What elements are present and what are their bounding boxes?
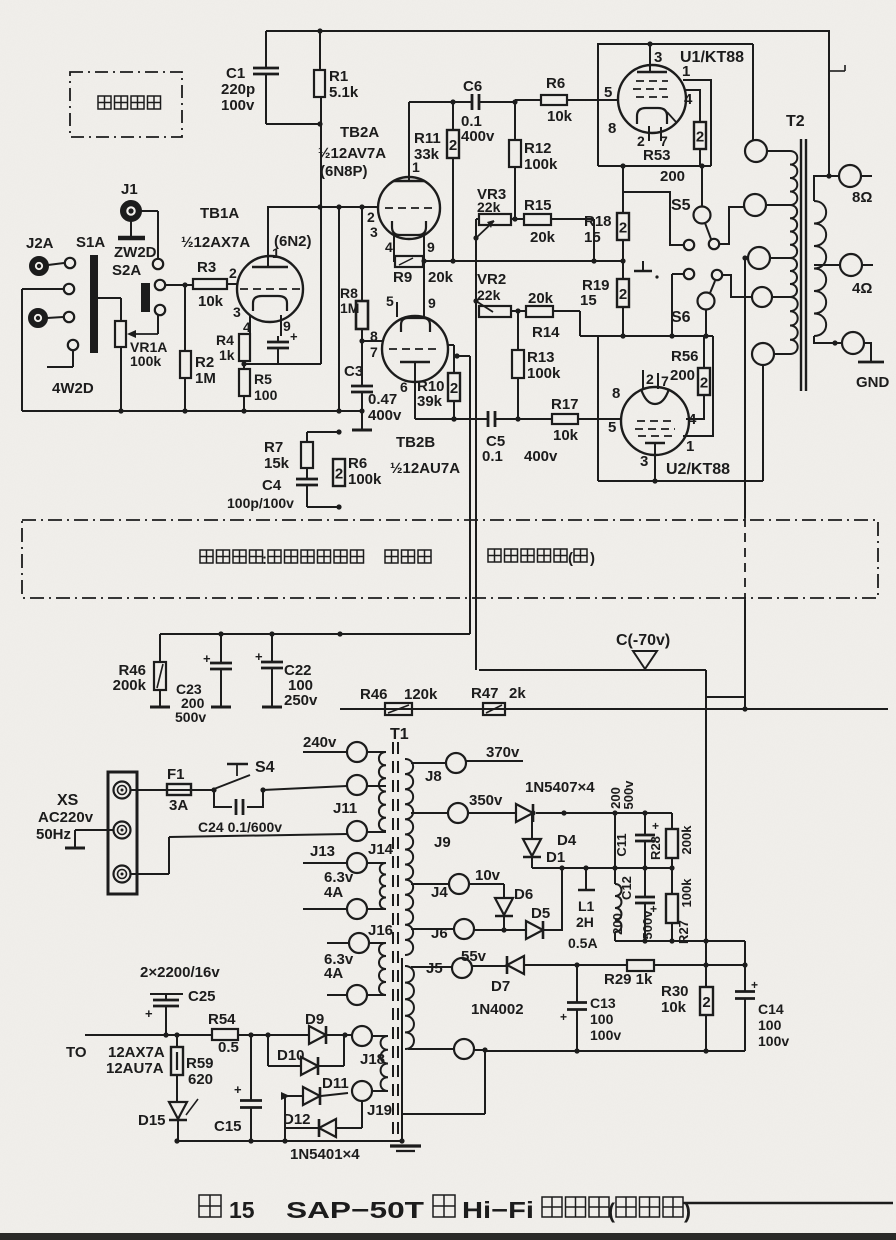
svg-text:2: 2 (700, 375, 708, 392)
terminal GND (842, 332, 864, 354)
terminal J6 (454, 919, 474, 939)
resistor R28 (671, 813, 673, 829)
TB1A cathode (253, 296, 287, 311)
wire bias node (479, 669, 706, 671)
terminal J16b (347, 985, 367, 1005)
T1 winding 6.3v B (379, 943, 386, 995)
terminal J14b (347, 899, 367, 919)
svg-text:(: ( (568, 550, 573, 567)
svg-text:400v: 400v (524, 448, 558, 465)
U1 cell box (598, 44, 753, 166)
wire S1A wiper to VR1A (97, 297, 121, 299)
diode D11 (285, 1095, 303, 1097)
svg-text:1k: 1k (219, 347, 235, 363)
wire bias bottom rail (485, 1050, 745, 1052)
terminal J16a (349, 933, 369, 953)
svg-text:D12: D12 (283, 1111, 311, 1128)
svg-text:39k: 39k (417, 393, 443, 410)
resistor R53 (684, 90, 700, 122)
capacitor C4 (306, 468, 308, 479)
T1 primary winding (379, 752, 386, 831)
svg-text:D1: D1 (546, 849, 565, 866)
wire 8 ohm tap (814, 176, 829, 201)
svg-text:2k: 2k (509, 685, 526, 702)
svg-text:9: 9 (427, 239, 435, 255)
svg-text:D11: D11 (322, 1075, 349, 1092)
wire S4 to T1 (263, 786, 347, 790)
svg-text:0.1: 0.1 (482, 448, 503, 465)
capacitor C1 (265, 31, 267, 67)
wire B+ center tap down (744, 258, 746, 518)
wire bias rail (340, 708, 888, 710)
terminal J11 live (347, 775, 367, 795)
ground below C3 (361, 411, 363, 430)
T2 primary terminal P5 (752, 343, 774, 365)
svg-text:F1: F1 (167, 766, 185, 783)
U2 plate pin 3 (645, 442, 665, 445)
svg-text:100v: 100v (758, 1033, 789, 1049)
TB1A grid dash (240, 288, 300, 290)
svg-text:100: 100 (590, 1011, 614, 1027)
resistor R12 (514, 102, 516, 140)
diode D10 (267, 1035, 269, 1066)
svg-text:1N5401×4: 1N5401×4 (290, 1146, 360, 1163)
resistor R19 (622, 261, 624, 279)
svg-text:R29 1k: R29 1k (604, 971, 653, 988)
svg-text:T1: T1 (390, 726, 409, 743)
svg-text:J8: J8 (425, 768, 442, 785)
svg-text:AC220v: AC220v (38, 809, 94, 826)
wire TB1A cathode pins (249, 315, 251, 334)
svg-text:C11: C11 (614, 833, 629, 856)
potentiometer VR2 (473, 298, 478, 303)
svg-text:20k: 20k (528, 290, 554, 307)
resistor R11 (452, 102, 454, 130)
svg-text:1: 1 (682, 63, 690, 80)
potentiometer R46 200k (159, 634, 161, 662)
bias arrow marker (633, 651, 657, 669)
tube TB1A (237, 256, 303, 322)
wire filter bottom (615, 940, 745, 942)
svg-text:R9: R9 (393, 269, 412, 286)
svg-text:3: 3 (640, 453, 648, 470)
svg-text:100k: 100k (527, 365, 561, 382)
TB2A plate pin 1 (408, 102, 410, 181)
resistor R56 (686, 395, 704, 419)
svg-text:R3: R3 (197, 259, 216, 276)
svg-text:+: + (560, 1010, 567, 1024)
svg-text:350v: 350v (469, 792, 503, 809)
svg-text:620: 620 (188, 1071, 213, 1088)
svg-text:R12: R12 (524, 140, 552, 157)
svg-text:4: 4 (385, 239, 393, 255)
resistor R30 (705, 965, 707, 987)
svg-text:4W2D: 4W2D (52, 380, 94, 397)
svg-text:½12AU7A: ½12AU7A (390, 460, 460, 477)
terminal 8 ohm (839, 165, 861, 187)
resistor R59 (176, 1035, 178, 1047)
svg-text:J2A: J2A (26, 235, 54, 252)
terminal J19 (352, 1081, 372, 1101)
resistor R2 (184, 285, 186, 351)
diode D1 (530, 810, 535, 815)
T2 primary terminal P1 (745, 140, 767, 162)
svg-text:R8: R8 (340, 285, 358, 301)
channel 1 label box (70, 72, 182, 137)
resistor R14 (511, 310, 526, 312)
svg-text:R11: R11 (414, 130, 441, 147)
svg-text:C15: C15 (214, 1118, 242, 1135)
U2 cathode top (641, 389, 669, 404)
svg-text:3: 3 (370, 224, 378, 240)
svg-text:8: 8 (608, 120, 616, 137)
svg-text:): ) (590, 550, 595, 567)
capacitor C15 (250, 1035, 252, 1100)
capacitor C3 (361, 341, 363, 386)
svg-text:R30: R30 (661, 983, 689, 1000)
svg-text:C3: C3 (344, 363, 363, 380)
caption rule (683, 1202, 893, 1204)
diode D5 (474, 929, 526, 931)
wire XS middle to ground (75, 829, 113, 831)
svg-text:0.5: 0.5 (218, 1039, 239, 1056)
svg-text:1N5407×4: 1N5407×4 (525, 779, 595, 796)
svg-text:200: 200 (660, 168, 685, 185)
svg-text:2: 2 (450, 380, 458, 397)
svg-text:D4: D4 (557, 832, 577, 849)
capacitor C14 (744, 965, 746, 991)
svg-text:J14: J14 (368, 841, 394, 858)
svg-text:XS: XS (57, 792, 79, 809)
svg-text:R4: R4 (216, 332, 234, 348)
wire GND tap (814, 336, 842, 343)
svg-text:6: 6 (400, 379, 408, 395)
svg-text:+: + (290, 329, 298, 344)
svg-text:D6: D6 (514, 886, 533, 903)
U2 cell box (597, 336, 599, 481)
bottom page bar (0, 1233, 896, 1240)
TB2B pins 5 9 (396, 302, 398, 317)
svg-text:R53: R53 (643, 147, 671, 164)
jack J2A lower (29, 309, 47, 327)
terminal J5 (452, 958, 472, 978)
wire left ground branch (22, 288, 64, 290)
svg-text:VR2: VR2 (477, 271, 506, 288)
svg-text:1: 1 (272, 245, 280, 261)
terminal J8 (446, 753, 466, 773)
svg-text:400v: 400v (461, 128, 495, 145)
wire R15 to bias line (593, 219, 595, 261)
svg-text:2: 2 (702, 994, 710, 1011)
wire bias winding return (474, 1049, 485, 1051)
svg-text:S4: S4 (255, 759, 275, 776)
svg-text:C6: C6 (463, 78, 482, 95)
T2 primary terminal P3 (748, 247, 770, 269)
svg-text:20k: 20k (428, 269, 454, 286)
wire TB2A plate to C6 (409, 101, 453, 103)
T2 primary terminal P2 (744, 194, 766, 216)
wire 10v (469, 883, 504, 885)
svg-text:+: + (145, 1006, 153, 1021)
svg-text:4: 4 (684, 91, 693, 108)
wire TB1A plate to TB2A grid (267, 206, 379, 208)
U2 pin1 wire (683, 336, 713, 436)
svg-text:R54: R54 (208, 1011, 236, 1028)
wire TB2B grid node (362, 340, 382, 342)
resistor R6 10k (515, 99, 541, 101)
wire VR3 node (476, 218, 479, 220)
svg-text:2: 2 (619, 286, 627, 303)
svg-text:R15: R15 (524, 197, 552, 214)
svg-text:100v: 100v (221, 97, 255, 114)
svg-text:R5: R5 (254, 371, 272, 387)
svg-text:GND: GND (856, 374, 890, 391)
diode D15 (169, 1102, 187, 1119)
resistor R17 (552, 414, 578, 424)
svg-text:22k: 22k (477, 199, 501, 215)
svg-text:C25: C25 (188, 988, 216, 1005)
svg-text:TO: TO (66, 1044, 87, 1061)
T2 secondary winding (814, 201, 826, 336)
svg-text:1N4002: 1N4002 (471, 1001, 524, 1018)
svg-text:5: 5 (608, 419, 616, 436)
potentiometer R9 (395, 256, 423, 267)
svg-text:R1: R1 (329, 68, 348, 85)
U2 plate to T2 P5 (762, 365, 764, 481)
svg-text:10v: 10v (475, 867, 501, 884)
resistor R10 (448, 344, 454, 346)
svg-text:SAP−50T: SAP−50T (286, 1197, 424, 1223)
capacitor C22 (271, 634, 273, 661)
T2 primary winding (790, 151, 797, 205)
svg-text:100: 100 (758, 1017, 782, 1033)
wire TB2B cathode feed down (469, 356, 471, 634)
svg-text:3: 3 (233, 304, 241, 320)
U1 pin1 wire (683, 80, 711, 166)
svg-text:200: 200 (610, 913, 625, 935)
wire 55v (472, 965, 507, 967)
U1 plate to T2 P1 (752, 44, 754, 141)
svg-text:10k: 10k (553, 427, 579, 444)
stray mark top right (830, 70, 845, 72)
svg-text:100p/100v: 100p/100v (227, 495, 294, 511)
svg-text:220p: 220p (221, 81, 255, 98)
tube TB2A (378, 177, 440, 239)
svg-text:R6: R6 (348, 455, 367, 472)
resistor R1 (319, 31, 321, 70)
tube U1 (618, 65, 686, 133)
svg-text:100v: 100v (590, 1027, 621, 1043)
svg-text:500v: 500v (640, 910, 655, 940)
svg-text:2H: 2H (576, 914, 594, 930)
resistor R3 (193, 279, 227, 289)
capacitor C25 (150, 993, 183, 995)
T2 core (800, 139, 802, 391)
T1 winding heater rect (381, 1036, 388, 1091)
svg-text:J5: J5 (426, 960, 443, 977)
svg-text:+: + (234, 1082, 242, 1097)
svg-text:T2: T2 (786, 113, 805, 130)
terminal J4 (449, 874, 469, 894)
diode D9 (309, 1026, 326, 1044)
svg-text:C13: C13 (590, 995, 616, 1011)
svg-text:C(-70v): C(-70v) (616, 632, 670, 649)
terminal J18 (352, 1026, 372, 1046)
wire XS bottom to T1 (131, 873, 169, 875)
svg-text:(6N8P): (6N8P) (320, 163, 368, 180)
svg-text:15k: 15k (264, 455, 290, 472)
svg-text:7: 7 (370, 344, 378, 360)
wire heater feed (85, 1034, 212, 1036)
T1 winding 6.3v A (380, 863, 386, 909)
wire bias line y=261 (423, 260, 623, 262)
svg-text:J6: J6 (431, 925, 448, 942)
capacitor C6 (453, 101, 471, 103)
terminal 4 ohm (840, 254, 862, 276)
svg-text:C12: C12 (619, 876, 634, 900)
diode D6 (503, 884, 505, 898)
capacitor C13 (576, 965, 578, 1002)
TB2B cathode top (401, 318, 430, 332)
svg-text:400v: 400v (368, 407, 402, 424)
wire bias feed to divider (705, 670, 707, 965)
svg-text:12AU7A: 12AU7A (106, 1060, 164, 1077)
chassis ground (390, 1144, 421, 1147)
terminal J9 (448, 803, 468, 823)
channel 2 placeholder band (22, 520, 878, 598)
svg-text:22k: 22k (477, 287, 501, 303)
svg-text:3A: 3A (169, 797, 188, 814)
svg-text:J4: J4 (431, 884, 448, 901)
capacitor C11 (644, 813, 646, 834)
switch S2A (153, 259, 163, 269)
resistor R7 (306, 432, 308, 442)
wire 370v tap (466, 760, 523, 762)
svg-text:+: + (652, 819, 659, 833)
svg-text:100k: 100k (130, 353, 161, 369)
svg-text:S6: S6 (671, 309, 691, 326)
TB1A plate pin 1 (267, 207, 269, 267)
fuse F1 (130, 789, 167, 791)
wire S1A spare throw (72, 350, 74, 367)
wire R6/C4 branch (338, 207, 340, 411)
svg-text:(: ( (608, 1200, 615, 1223)
capacitor C12 (644, 868, 646, 896)
svg-text:R46: R46 (360, 686, 388, 703)
svg-text:8: 8 (612, 385, 620, 402)
resistor R15 (511, 218, 524, 220)
figure caption (199, 1195, 221, 1217)
svg-text:100: 100 (254, 387, 278, 403)
svg-text:1: 1 (686, 438, 694, 455)
svg-text:R47: R47 (471, 685, 499, 702)
wire bias feed down (475, 238, 477, 670)
U1 cathode (637, 108, 667, 124)
diode D12 (285, 1127, 319, 1129)
svg-text:R2: R2 (195, 354, 214, 371)
svg-text:S2A: S2A (112, 262, 141, 279)
svg-text:5: 5 (604, 84, 612, 101)
svg-text:0.47: 0.47 (368, 391, 397, 408)
wire TB2A cathode pins (393, 235, 395, 261)
wire 4 ohm tap (814, 264, 840, 266)
resistor R8 (361, 207, 363, 301)
svg-text:8Ω: 8Ω (852, 189, 872, 206)
choke L1 (585, 868, 587, 890)
svg-text:D10: D10 (277, 1047, 305, 1064)
svg-text:370v: 370v (486, 744, 520, 761)
resistor R13 (517, 311, 519, 350)
svg-text:20k: 20k (530, 229, 556, 246)
svg-text:100k: 100k (524, 156, 558, 173)
terminal J11 neutral (347, 821, 367, 841)
svg-text:R6: R6 (546, 75, 565, 92)
svg-text:2×2200/16v: 2×2200/16v (140, 964, 220, 981)
svg-text:D15: D15 (138, 1112, 166, 1129)
U2 pin stubs 2 7 (642, 370, 644, 389)
svg-text:500v: 500v (175, 709, 206, 725)
U1 grid dashes (636, 80, 668, 82)
svg-text:10k: 10k (547, 108, 573, 125)
svg-text:15: 15 (229, 1197, 255, 1223)
ground bar below J1 (130, 221, 132, 236)
svg-text:2: 2 (229, 265, 237, 281)
resistor R27 (671, 868, 673, 894)
wire bottom ground rail (177, 1140, 402, 1142)
switch S4 (211, 787, 216, 792)
svg-text:2: 2 (367, 209, 375, 225)
svg-text:R17: R17 (551, 396, 579, 413)
svg-text:1M: 1M (195, 370, 216, 387)
svg-text:J13: J13 (310, 843, 335, 860)
svg-text:+: + (255, 649, 263, 664)
svg-text:C24 0.1/600v: C24 0.1/600v (198, 819, 282, 835)
svg-text:J18: J18 (360, 1051, 385, 1068)
svg-text:TB2A: TB2A (340, 124, 379, 141)
svg-text::: : (262, 551, 267, 568)
wire preamp supply rail (160, 633, 470, 635)
capacitor TB1A cathode bypass (267, 341, 289, 344)
svg-text:120k: 120k (404, 686, 438, 703)
tube TB2B (382, 316, 448, 382)
svg-text:C4: C4 (262, 477, 282, 494)
svg-text:J11: J11 (333, 800, 357, 817)
resistor R18 (620, 163, 625, 168)
svg-text:R13: R13 (527, 349, 555, 366)
svg-text:½12AX7A: ½12AX7A (181, 234, 250, 251)
svg-text:D5: D5 (531, 905, 550, 922)
wire R14 to U2 grid box (553, 310, 580, 312)
capacitor C5 (487, 411, 490, 427)
svg-text:50Hz: 50Hz (36, 826, 71, 843)
svg-text:TB1A: TB1A (200, 205, 239, 222)
svg-text:2: 2 (449, 137, 457, 154)
potentiometer VR3 (479, 214, 511, 225)
svg-text:240v: 240v (303, 734, 337, 751)
svg-text:55v: 55v (461, 948, 487, 965)
svg-text:S5: S5 (671, 197, 691, 214)
svg-text:J9: J9 (434, 834, 451, 851)
potentiometer R47 (483, 703, 505, 715)
capacitor C24 (214, 790, 232, 807)
ground stub mid (642, 261, 644, 271)
svg-text:R7: R7 (264, 439, 283, 456)
wire cathode node to feedback (244, 363, 321, 365)
terminal J5 bottom (454, 1039, 474, 1059)
wire B+ node (532, 867, 672, 869)
resistor R4 (239, 334, 250, 361)
svg-text:R14: R14 (532, 324, 560, 341)
